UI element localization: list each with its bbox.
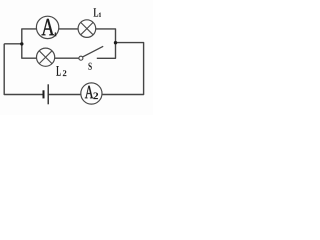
switch S pivot	[79, 56, 83, 60]
wire top row with left and right verticals	[22, 29, 116, 44]
lamp L2	[37, 48, 55, 66]
label L1	[94, 8, 102, 16]
background	[0, 0, 153, 115]
ammeter A1	[36, 16, 58, 38]
node junction left	[20, 42, 23, 45]
wire right rail and bottom-right	[102, 43, 143, 95]
wire switch right segment up to right junction	[97, 43, 116, 59]
battery positive plate (long thin)	[47, 84, 49, 104]
wire left mid horizontal	[4, 43, 22, 45]
wire bottom middle (battery to A2)	[49, 94, 81, 96]
label S	[88, 63, 91, 70]
node junction right	[114, 41, 117, 44]
wire left rail and bottom-left	[4, 44, 43, 95]
wire L2 branch from left junction	[22, 44, 79, 58]
ammeter A2	[81, 83, 102, 104]
switch S blade	[83, 46, 104, 57]
lamp L1	[78, 20, 96, 38]
label L2	[56, 66, 66, 76]
battery negative plate (short thick)	[43, 90, 45, 98]
